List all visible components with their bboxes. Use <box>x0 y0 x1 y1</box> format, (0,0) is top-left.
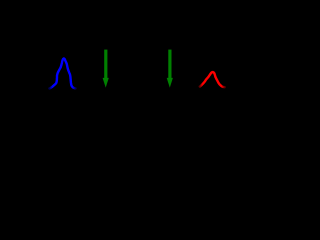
red absorption line peak <box>200 72 225 87</box>
blue emission line peak <box>49 59 75 89</box>
green arrow 2 <box>167 50 173 88</box>
green arrow 1 <box>103 50 109 88</box>
